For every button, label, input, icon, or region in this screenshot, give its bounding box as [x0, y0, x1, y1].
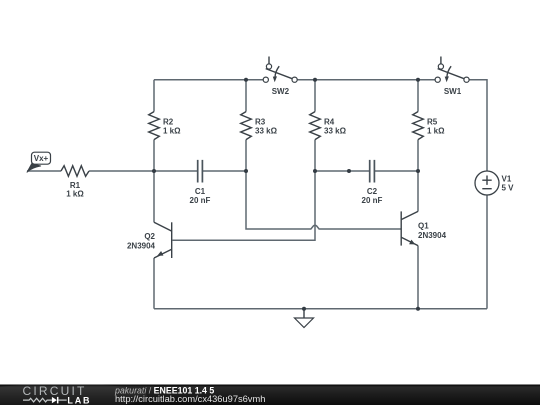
svg-text:2N3904: 2N3904 [127, 241, 156, 250]
svg-text:20 nF: 20 nF [190, 196, 211, 205]
svg-text:C1: C1 [195, 187, 206, 196]
svg-text:1 kΩ: 1 kΩ [66, 190, 84, 199]
wire C2 right plate to R5/collector node [374, 170, 418, 172]
wire R4 vertical stubs [314, 80, 316, 171]
wire bottom rail [154, 308, 487, 310]
resistor R5 [413, 112, 445, 140]
switch SW2 [263, 57, 297, 96]
transistor Q1 [401, 211, 446, 245]
node mid wire joint [347, 169, 351, 173]
flag Vx+ [27, 152, 51, 172]
resistor R1 [61, 166, 89, 199]
svg-text:Q1: Q1 [418, 221, 429, 230]
svg-text:SW2: SW2 [272, 87, 290, 96]
wire V1 bottom vertical [486, 195, 488, 309]
wire Q1 collector vertical [417, 171, 419, 211]
node R4 bottom [313, 169, 317, 173]
resistor R4 [310, 112, 347, 140]
wire R2 vertical stubs [153, 80, 155, 171]
ground [295, 309, 314, 328]
node Q1 emitter / bottom rail [416, 307, 420, 311]
CircuitLab logo diode symbol [52, 397, 57, 403]
svg-text:R4: R4 [324, 118, 335, 127]
wire R4 bottom node to C2 left plate [315, 170, 370, 172]
svg-text:http://circuitlab.com/cx436u97: http://circuitlab.com/cx436u97s6vmh [115, 394, 265, 404]
node R4 top [313, 78, 317, 82]
svg-text:Q2: Q2 [144, 232, 155, 241]
svg-text:R2: R2 [163, 118, 174, 127]
node R5 bottom / C2 / Q1 collector [416, 169, 420, 173]
wire Q2 collector vertical [153, 171, 155, 222]
svg-text:33 kΩ: 33 kΩ [255, 126, 278, 135]
wire R5 vertical stubs [417, 80, 419, 171]
svg-text:R5: R5 [427, 118, 438, 127]
node R3 top [244, 78, 248, 82]
node R5 top [416, 78, 420, 82]
wire C1 right plate to R3 bottom node [202, 170, 246, 172]
wire Vx+ to R1 [27, 170, 61, 172]
node Q2 collector / R2 bottom [152, 169, 156, 173]
FOOTER BAR [0, 383, 540, 405]
wire Q2 emitter vertical [153, 258, 155, 309]
svg-text:V1: V1 [502, 175, 512, 184]
svg-text:2N3904: 2N3904 [418, 231, 447, 240]
wire R3 node down and right to Q1 base (hop over x=315) [246, 171, 401, 229]
wire R3 vertical stubs [245, 80, 247, 171]
wire top rail left segment (R2 top to SW2 left terminal) [154, 79, 263, 81]
CircuitLab logo resistor zigzag [23, 398, 52, 402]
wire top rail right segment (SW1 right terminal to V1 top) [469, 80, 487, 171]
svg-text:R3: R3 [255, 118, 266, 127]
node R3 bottom / C1 [244, 169, 248, 173]
capacitor C1 [190, 160, 211, 205]
wire top rail middle segment (SW2 right terminal to SW1 left terminal) [297, 79, 435, 81]
transistor Q2 [127, 222, 172, 258]
svg-text:R1: R1 [70, 181, 81, 190]
svg-text:5 V: 5 V [502, 184, 515, 193]
wire Q1 emitter vertical [417, 246, 419, 309]
capacitor C2 [362, 160, 383, 205]
node ground junction [302, 307, 306, 311]
svg-text:Vx+: Vx+ [34, 154, 49, 163]
resistor R3 [241, 112, 278, 140]
resistor R2 [149, 112, 181, 140]
svg-text:1 kΩ: 1 kΩ [427, 126, 445, 135]
svg-text:1 kΩ: 1 kΩ [163, 126, 181, 135]
svg-text:SW1: SW1 [444, 87, 462, 96]
wire R4 node down and left to Q2 base [173, 171, 316, 240]
svg-text:20 nF: 20 nF [362, 196, 383, 205]
voltage source V1 [475, 171, 514, 195]
svg-text:C2: C2 [367, 187, 378, 196]
switch SW1 [435, 57, 469, 96]
svg-text:LAB: LAB [67, 395, 91, 405]
svg-text:33 kΩ: 33 kΩ [324, 126, 347, 135]
wire R1 to C1 (through node at x=154) [89, 170, 198, 172]
